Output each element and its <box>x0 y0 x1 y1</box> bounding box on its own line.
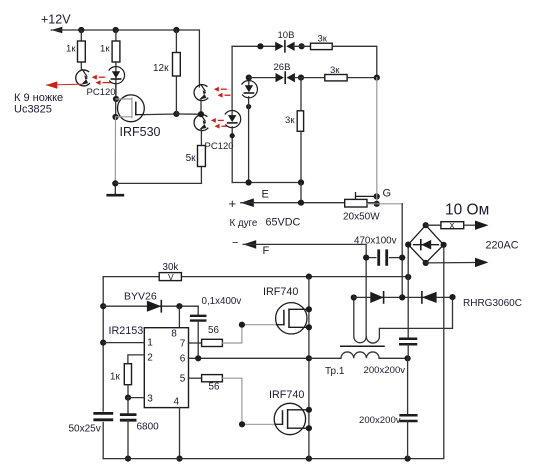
svg-text:200x200v: 200x200v <box>359 415 401 426</box>
svg-text:К дуге: К дуге <box>230 218 258 229</box>
svg-text:3к: 3к <box>285 115 295 126</box>
svg-text:5к: 5к <box>186 153 197 164</box>
label BYV26 <box>124 291 157 303</box>
diode D1 BYV26 <box>147 301 161 312</box>
capacitor C3 0.1x400v <box>191 316 205 321</box>
node +12V / R2 <box>113 27 119 33</box>
trimmer tap on R8 <box>356 193 377 200</box>
svg-text:12к: 12к <box>153 63 169 74</box>
svg-text:PC120: PC120 <box>87 87 116 98</box>
wire U3 led to IRF530 drain <box>115 83 117 99</box>
svg-text:V: V <box>168 272 174 282</box>
wire mosfet vertical <box>308 277 310 459</box>
label F <box>263 245 270 257</box>
node bridge left <box>405 242 411 248</box>
wire pin2 lead <box>128 355 144 364</box>
node 26V row left <box>246 75 252 81</box>
wire IRF530 source to ground <box>114 117 116 183</box>
pin 5 <box>180 374 186 385</box>
node C4 on gnd rail <box>125 456 131 462</box>
red light arrows to U2 <box>92 75 112 85</box>
svg-text:4: 4 <box>174 397 180 408</box>
svg-text:10В: 10В <box>278 30 295 41</box>
wire 10V row left drop <box>231 46 233 115</box>
svg-text:G: G <box>383 188 392 200</box>
transistor Q1 IRF530 <box>116 95 145 122</box>
node pin6 at C3 <box>195 355 201 361</box>
wire diode row <box>354 296 453 298</box>
svg-text:5: 5 <box>180 374 186 385</box>
svg-text:3к: 3к <box>318 34 328 45</box>
wire 12k leads <box>175 30 177 114</box>
resistor R11 56 (pin7) <box>202 325 223 347</box>
capacitor C4 6800 <box>121 415 135 421</box>
capacitor C6 200x200v <box>401 415 417 421</box>
wire pin7 lead <box>189 342 202 344</box>
svg-text:BYV26: BYV26 <box>124 291 157 303</box>
wire R2 leads <box>115 30 117 99</box>
node half-bridge mid <box>306 355 312 361</box>
wire pin7 to gate1 <box>222 325 276 343</box>
wire R1 leads <box>80 30 82 70</box>
node pin4 on gnd rail <box>176 456 182 462</box>
pin 8 <box>171 328 177 339</box>
resistor R3 12k <box>153 53 180 77</box>
svg-text:50x25v: 50x25v <box>69 424 101 435</box>
wire E to vertical A <box>367 203 402 205</box>
label 20x50W <box>343 212 380 223</box>
resistor R9 30k <box>159 262 181 282</box>
label 0.1x400v <box>202 296 242 307</box>
capacitor C1 470x100 <box>369 251 402 265</box>
wire C4 top lead <box>127 398 129 414</box>
wire bottom rail <box>103 245 444 459</box>
wire left vertical lower <box>102 423 104 459</box>
wire R10 to pin3 node <box>127 385 129 398</box>
svg-text:Тр.1: Тр.1 <box>325 366 345 377</box>
label RHRG3060C <box>463 298 522 309</box>
resistor R5 3k <box>311 34 333 50</box>
node G upper <box>374 193 380 199</box>
node 26V row mid <box>298 75 304 81</box>
wire R6 to right node <box>347 77 377 79</box>
node bridge bottom <box>423 260 429 266</box>
svg-text:1: 1 <box>147 337 153 348</box>
wire vertical A <box>401 204 403 298</box>
label 200x200v upper <box>364 365 406 376</box>
zener pair 10V <box>275 41 294 52</box>
node rail at IRF740 <box>306 274 312 280</box>
label PC120 (left) <box>87 87 116 98</box>
wire primary right half <box>366 297 452 343</box>
wire +12V rail <box>51 30 199 87</box>
wire BYV26 row <box>103 305 198 307</box>
resistor R4 5k <box>186 146 206 167</box>
resistor R12 56 (pin5) <box>202 375 223 393</box>
node gate/12k <box>173 111 179 117</box>
label 10V <box>278 30 295 41</box>
label K duge <box>230 218 258 229</box>
node ground junction <box>112 180 118 186</box>
svg-text:3к: 3к <box>330 65 340 76</box>
resistor R1 1k <box>66 41 85 62</box>
transistor Q2 IRF740 <box>276 303 309 334</box>
label IRF530 <box>120 125 161 139</box>
pin 6 <box>180 354 186 365</box>
node zener right <box>374 75 380 81</box>
svg-text:6: 6 <box>180 354 186 365</box>
op-amp U1 IR2153 box <box>144 328 188 408</box>
node bridge right <box>441 242 447 248</box>
wire pin8 vertical <box>178 306 180 328</box>
winding secondary <box>309 352 408 358</box>
node pin3 <box>125 395 131 401</box>
svg-text:2: 2 <box>147 352 153 363</box>
wire gate node to optos <box>176 113 201 115</box>
label K 9 nozhke <box>14 92 63 104</box>
wire R8 right lead <box>367 202 377 204</box>
svg-text:1к: 1к <box>66 44 76 55</box>
svg-text:IR2153: IR2153 <box>109 325 144 337</box>
wire F line <box>243 244 366 337</box>
node Q3 drain <box>306 407 312 413</box>
node U4 led bottom <box>246 104 251 109</box>
node tie row at R7 <box>298 179 304 185</box>
label 200x200v lower <box>359 415 401 426</box>
label 65VDC <box>266 217 301 229</box>
wire G vertical <box>376 78 378 204</box>
capacitor C2 50x25v <box>95 413 112 419</box>
resistor R8 20x50W <box>345 199 367 207</box>
node BYV26 cathode <box>176 303 182 309</box>
svg-text:Uc3825: Uc3825 <box>14 104 52 116</box>
node bottom at mosfets <box>306 456 312 462</box>
svg-text:IRF740: IRF740 <box>269 389 304 401</box>
wire pin4 lead <box>179 408 181 459</box>
capacitor C5 200x200v <box>400 339 416 345</box>
svg-text:65VDC: 65VDC <box>266 217 301 229</box>
red wire to control <box>46 81 83 88</box>
optocoupler U3 led <box>109 67 125 84</box>
svg-text:8: 8 <box>171 328 177 339</box>
optocoupler U5 led <box>225 110 241 127</box>
bridge inner diode <box>414 240 439 250</box>
label 220AC <box>486 240 519 252</box>
label Uc3825 <box>14 104 52 116</box>
wire IRF530 gate to 12k node <box>145 113 177 116</box>
svg-text:+: + <box>229 196 237 211</box>
svg-text:RHRG3060C: RHRG3060C <box>463 298 522 309</box>
wire 10V to 3k <box>294 45 311 47</box>
wire C6 to gnd rail <box>407 421 409 459</box>
node +12V / R1 <box>78 27 84 33</box>
wire between phototransistors <box>200 100 202 117</box>
arrow E <box>241 198 254 207</box>
wire bridge top to Rx <box>426 224 441 226</box>
svg-text:1к: 1к <box>100 44 110 55</box>
label 6800 <box>137 422 160 433</box>
svg-text:3: 3 <box>147 394 153 405</box>
wire 26V row <box>249 77 277 79</box>
wire Rx to arrow <box>464 224 476 226</box>
resistor R6 3k <box>325 65 347 81</box>
red light arrows to U5 <box>211 118 228 129</box>
svg-text:+12V: +12V <box>41 13 71 27</box>
wire U5 emitter to 5k <box>200 130 202 146</box>
node bridge top <box>423 222 429 228</box>
node bottom at caps <box>405 456 411 462</box>
node +12V / R3 <box>173 27 179 33</box>
wire 26V row left drop <box>248 78 250 86</box>
node U5 led bottom <box>230 133 235 138</box>
wire primary left leg <box>354 298 367 343</box>
wire left vertical <box>102 277 104 411</box>
wire supply rail <box>103 276 408 278</box>
wire R7 down to E <box>300 183 302 203</box>
label IR2153 <box>109 325 144 337</box>
svg-text:IRF530: IRF530 <box>120 125 161 139</box>
diode D2 RHRG3060C <box>370 292 383 303</box>
bridge rectifier B1 <box>408 225 443 263</box>
label minus <box>232 237 238 249</box>
wire C5 to mid node <box>407 344 409 358</box>
svg-text:10 Ом: 10 Ом <box>445 202 489 219</box>
node gate1 corner <box>239 322 245 328</box>
node gate2 corner <box>239 421 245 427</box>
wire C3 bottom lead <box>197 322 199 359</box>
wire pin3 lead <box>128 397 144 399</box>
svg-text:26В: 26В <box>274 62 291 73</box>
wire E line <box>241 202 345 204</box>
wire 5k bottom lead <box>200 167 202 184</box>
pin 2 <box>147 352 153 363</box>
svg-text:−: − <box>232 237 238 249</box>
resistor R2 1k <box>100 41 120 62</box>
svg-text:1к: 1к <box>110 372 120 383</box>
ground symbol <box>108 183 123 195</box>
label E <box>262 189 269 201</box>
label 470x100v <box>354 236 397 247</box>
optocoupler U2 phototransistor <box>76 70 90 86</box>
optocoupler U4 phototransistor <box>194 84 208 100</box>
svg-text:56: 56 <box>209 382 220 393</box>
node G on E line <box>374 201 380 207</box>
pin 7 <box>180 339 186 350</box>
resistor R13 x <box>441 220 464 231</box>
diode D3 RHRG3060C <box>422 292 437 303</box>
node cap C1 left <box>363 255 369 261</box>
node secondary right <box>405 355 411 361</box>
label PC120 (right) <box>205 141 234 152</box>
arrow F <box>243 240 256 249</box>
node Q2 drain <box>306 306 312 312</box>
wire 10V row <box>232 45 276 47</box>
arrow 220AC bottom <box>475 258 489 267</box>
wire C3 top lead <box>197 306 199 315</box>
label G <box>383 188 392 200</box>
pin 3 <box>147 394 153 405</box>
node diode row mid <box>399 294 405 300</box>
svg-text:7: 7 <box>180 339 186 350</box>
wire bottom tie row <box>232 182 301 184</box>
svg-text:F: F <box>263 245 270 257</box>
wire R5 to right corner <box>332 46 377 77</box>
wire pin5 lead <box>189 377 202 379</box>
svg-text:470x100v: 470x100v <box>354 236 397 247</box>
node phototransistor junction <box>198 111 204 117</box>
svg-text:E: E <box>262 189 269 201</box>
svg-text:IRF740: IRF740 <box>263 286 298 298</box>
red light arrows to U4 <box>214 87 231 98</box>
wire mid node down <box>407 358 409 414</box>
svg-text:0,1x400v: 0,1x400v <box>202 296 242 307</box>
optocoupler U4 led <box>242 81 258 98</box>
wire C4 bottom lead <box>127 420 129 458</box>
pin 1 <box>147 337 153 348</box>
label IRF740 upper <box>263 286 298 298</box>
node IRF530 source <box>112 114 118 120</box>
pin 4 <box>174 397 180 408</box>
resistor R7 3k <box>285 111 304 132</box>
node tie row at U4 <box>246 179 252 185</box>
wire ground to 5k <box>115 182 201 184</box>
wire 26V to 3k <box>294 77 325 79</box>
label +12V <box>41 13 71 27</box>
optocoupler U5 phototransistor <box>194 114 208 130</box>
node diode row right <box>449 294 455 300</box>
node 10V row right <box>299 43 305 49</box>
node Q2 source <box>306 324 312 330</box>
svg-text:56: 56 <box>208 325 219 336</box>
arrow 220AC top <box>475 221 489 230</box>
label IRF740 lower <box>269 389 304 401</box>
transformer core <box>341 345 384 347</box>
wire pin5 to gate2 <box>222 378 275 424</box>
label 50x25v <box>69 424 101 435</box>
label 10 Om <box>445 202 489 219</box>
wire bridge bottom to arrow <box>426 262 476 264</box>
label plus <box>229 196 237 211</box>
svg-text:220AC: 220AC <box>486 240 519 252</box>
svg-text:x: x <box>450 220 455 231</box>
node 10V row left <box>257 43 263 49</box>
node pin1 left <box>100 340 106 346</box>
node E at R7 <box>298 200 304 206</box>
node IRF530 drain <box>113 96 119 102</box>
svg-text:6800: 6800 <box>137 422 160 433</box>
+12V rail arrow <box>51 27 62 33</box>
wire U4 led down <box>248 97 250 183</box>
node Q3 source <box>306 425 312 431</box>
wire 3k vertical leads <box>300 78 302 183</box>
node diode row left <box>351 294 357 300</box>
wire drain node down <box>115 99 117 117</box>
transistor Q3 IRF740 <box>274 403 309 434</box>
label Tr.1 <box>325 366 345 377</box>
node BYV26 left <box>100 303 106 309</box>
resistor R10 1k <box>110 364 131 385</box>
svg-text:200x200v: 200x200v <box>364 365 406 376</box>
wire vertical B <box>407 245 409 338</box>
svg-text:20x50W: 20x50W <box>343 212 380 223</box>
node rail at right <box>405 274 411 280</box>
svg-text:PC120: PC120 <box>205 141 234 152</box>
zener pair 26V <box>276 72 295 83</box>
wire pin1 lead <box>103 342 144 344</box>
wire pin6 lead <box>189 357 310 359</box>
node cap C1 right <box>399 255 405 261</box>
label 26V <box>274 62 291 73</box>
svg-text:К 9 ножке: К 9 ножке <box>14 92 63 104</box>
wire U5 led down <box>231 127 233 183</box>
